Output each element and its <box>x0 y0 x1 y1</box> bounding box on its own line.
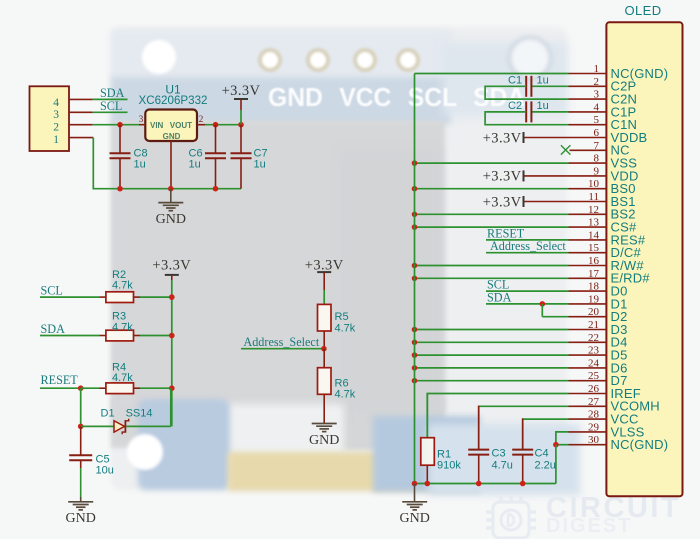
svg-text:4: 4 <box>594 101 600 113</box>
junction R1 bottom <box>425 481 431 487</box>
svg-text:910k: 910k <box>437 459 461 471</box>
svg-text:1u: 1u <box>254 159 266 171</box>
svg-text:+3.3V: +3.3V <box>483 130 522 146</box>
junction R4 / +3.3V <box>169 385 175 391</box>
svg-text:4.7u: 4.7u <box>492 459 513 471</box>
pin 29 VLSS <box>556 421 645 444</box>
svg-text:12: 12 <box>588 204 599 216</box>
svg-text:21: 21 <box>588 319 599 331</box>
wire RESET branch down <box>80 388 82 426</box>
svg-text:Address_Select: Address_Select <box>243 335 319 349</box>
svg-text:SDA: SDA <box>487 290 512 304</box>
wire pin2 to VIN <box>93 124 139 126</box>
pin 24 D6 <box>412 357 628 375</box>
wire +3.3V rail down <box>171 297 173 426</box>
power +3.3V (U1 out) <box>222 83 261 125</box>
junction C4 bottom <box>520 481 526 487</box>
junction C6 bottom <box>213 186 219 192</box>
svg-text:14: 14 <box>588 229 600 241</box>
junction C7 top <box>238 122 244 128</box>
label Address_Select <box>241 335 324 349</box>
svg-text:Address_Select: Address_Select <box>490 239 566 253</box>
capacitor C3 <box>468 406 513 484</box>
svg-text:28: 28 <box>588 409 600 421</box>
power +3.3V (R5) <box>305 257 344 304</box>
svg-text:OLED: OLED <box>624 3 661 18</box>
svg-text:VIN: VIN <box>150 121 164 130</box>
resistor R5 <box>318 304 356 348</box>
svg-text:+3.3V: +3.3V <box>152 257 191 273</box>
regulator U1 XC6206P332 <box>139 83 208 189</box>
svg-text:8: 8 <box>594 153 600 165</box>
svg-text:7: 7 <box>594 140 600 152</box>
svg-text:24: 24 <box>588 357 600 369</box>
wire pin1 to ground rail <box>93 138 241 189</box>
svg-text:30: 30 <box>588 434 600 446</box>
svg-text:GND: GND <box>156 212 186 227</box>
svg-text:4: 4 <box>53 97 59 109</box>
svg-text:GND: GND <box>66 511 96 526</box>
wire RESET to R4 <box>81 387 100 389</box>
svg-text:C1: C1 <box>508 75 522 87</box>
label SCL (pull-up) <box>40 284 100 298</box>
svg-text:+3.3V: +3.3V <box>222 83 261 99</box>
svg-text:SDA: SDA <box>100 86 125 100</box>
svg-text:2: 2 <box>594 76 600 88</box>
pin 3 stub <box>69 111 93 113</box>
ground GND (R6) <box>309 424 339 448</box>
svg-text:13: 13 <box>588 217 600 229</box>
svg-text:GND: GND <box>309 433 339 448</box>
svg-text:17: 17 <box>588 268 600 280</box>
svg-text:NC(GND): NC(GND) <box>611 437 669 452</box>
capacitor C6 <box>189 125 227 189</box>
svg-text:4.7k: 4.7k <box>112 321 133 333</box>
diode D1 SS14 <box>81 388 171 434</box>
resistor R2 <box>100 269 172 303</box>
pin 20 D2 <box>542 304 627 324</box>
pin 9 VDD <box>483 165 639 184</box>
svg-text:27: 27 <box>588 396 600 408</box>
pin 15 D/C# <box>486 239 641 260</box>
svg-text:+3.3V: +3.3V <box>305 257 344 273</box>
resistor R3 <box>100 311 172 341</box>
junction C8 bottom <box>117 186 123 192</box>
svg-text:3: 3 <box>53 109 59 121</box>
connector J1 <box>30 86 70 151</box>
svg-text:22: 22 <box>588 332 599 344</box>
label SDA (pull-up) <box>40 322 100 336</box>
svg-text:SCL: SCL <box>41 284 63 298</box>
capacitor C2 <box>485 100 568 125</box>
svg-text:4.7k: 4.7k <box>335 388 356 400</box>
junction RESET branch <box>78 385 84 391</box>
svg-text:1: 1 <box>594 63 600 75</box>
pin 23 D5 <box>412 345 628 363</box>
svg-text:29: 29 <box>588 421 600 433</box>
pin 30 NC(GND) <box>553 434 668 483</box>
svg-text:4.7k: 4.7k <box>112 280 133 292</box>
pin 7 NC <box>561 140 630 158</box>
svg-text:1u: 1u <box>537 100 549 112</box>
wire VOUT to +3.3V <box>205 124 241 126</box>
pin 28 VCC <box>523 409 639 450</box>
label SDA <box>93 86 128 100</box>
svg-text:18: 18 <box>588 281 600 293</box>
capacitor C4 <box>512 418 556 483</box>
svg-text:C4: C4 <box>535 448 549 460</box>
svg-text:R5: R5 <box>335 311 349 323</box>
pin 5 C1N <box>569 114 638 132</box>
pin 17 E/RD# <box>412 268 651 286</box>
label SCL <box>93 99 128 113</box>
svg-text:4.7k: 4.7k <box>335 323 356 335</box>
svg-text:4.7k: 4.7k <box>112 372 133 384</box>
resistor R6 <box>318 349 356 424</box>
capacitor C5 <box>69 426 114 501</box>
svg-text:5: 5 <box>594 114 600 126</box>
svg-text:23: 23 <box>588 345 600 357</box>
wire bottom ground rail <box>415 483 556 485</box>
svg-text:3: 3 <box>139 114 144 124</box>
wire ground bus <box>414 74 416 484</box>
connector OLED <box>606 3 682 496</box>
svg-text:20: 20 <box>588 306 600 318</box>
svg-text:+3.3V: +3.3V <box>483 169 522 185</box>
svg-text:SS14: SS14 <box>126 407 153 419</box>
junction C6 top <box>213 122 219 128</box>
svg-text:1u: 1u <box>134 159 146 171</box>
capacitor C8 <box>110 125 148 189</box>
resistor R1 <box>421 394 462 484</box>
svg-text:10: 10 <box>588 178 600 190</box>
junction rail left <box>412 481 418 487</box>
junction C3 bottom <box>476 481 482 487</box>
pin 13 CS# <box>412 217 637 235</box>
pin 1 stub <box>69 137 93 139</box>
power +3.3V (pull-ups) <box>152 257 191 297</box>
pin 26 IREF <box>427 383 641 438</box>
svg-text:C2: C2 <box>508 100 522 112</box>
svg-text:C3: C3 <box>492 448 506 460</box>
pin 14 RES# <box>486 226 646 247</box>
svg-text:25: 25 <box>588 370 600 382</box>
svg-text:1u: 1u <box>189 159 201 171</box>
junction Address_Select <box>321 346 327 352</box>
pin 12 BS2 <box>412 204 636 222</box>
svg-text:D1: D1 <box>101 407 115 419</box>
svg-text:3: 3 <box>594 89 600 101</box>
label RESET <box>40 373 81 388</box>
svg-text:15: 15 <box>588 242 600 254</box>
pin 19 D1 <box>486 290 628 311</box>
svg-text:RESET: RESET <box>41 373 79 387</box>
pin 4 stub <box>69 98 93 100</box>
pin 10 BS0 <box>412 178 636 196</box>
svg-text:6: 6 <box>594 127 600 139</box>
pin 4 C1P <box>569 101 637 119</box>
capacitor C1 <box>485 75 568 100</box>
svg-text:10u: 10u <box>96 465 114 477</box>
pin 18 D0 <box>486 278 628 299</box>
pin 11 BS1 <box>483 191 636 210</box>
junction R3 / +3.3V <box>169 333 175 339</box>
pin 6 VDDB <box>483 127 648 146</box>
pin 16 R/W# <box>412 255 645 273</box>
svg-text:SCL: SCL <box>100 99 122 113</box>
junction VIN node <box>117 122 123 128</box>
svg-text:16: 16 <box>588 255 600 267</box>
svg-text:2.2u: 2.2u <box>535 459 556 471</box>
svg-text:GND: GND <box>400 511 430 526</box>
svg-text:2: 2 <box>53 122 59 134</box>
junction R2 / +3.3V <box>169 294 175 300</box>
svg-text:XC6206P332: XC6206P332 <box>139 94 208 107</box>
junction U1 GND <box>168 186 174 192</box>
ground GND (C5) <box>66 502 96 526</box>
capacitor C7 <box>231 125 268 189</box>
svg-text:+3.3V: +3.3V <box>483 194 522 210</box>
ground GND (OLED) <box>400 484 430 527</box>
pin 27 VCOMH <box>479 396 660 450</box>
svg-text:19: 19 <box>588 293 600 305</box>
pin 21 D3 <box>412 319 628 337</box>
ground GND (U1) <box>156 189 186 227</box>
pin 2 stub <box>69 124 93 126</box>
svg-text:VOUT: VOUT <box>170 121 192 130</box>
pin 3 C2N <box>569 89 638 107</box>
pin 1 NC(GND) <box>415 63 669 81</box>
svg-text:11: 11 <box>588 191 599 203</box>
svg-text:SDA: SDA <box>41 322 66 336</box>
junction D1 anode / C5 <box>78 424 84 430</box>
svg-text:GND: GND <box>163 132 181 141</box>
pin 25 D7 <box>412 370 628 388</box>
resistor R4 <box>100 361 172 393</box>
pin 22 D4 <box>412 332 628 350</box>
pin 8 VSS <box>412 153 638 171</box>
svg-text:1u: 1u <box>537 75 549 87</box>
svg-text:1: 1 <box>53 134 59 146</box>
svg-text:26: 26 <box>588 383 600 395</box>
svg-text:9: 9 <box>594 165 600 177</box>
pin 2 C2P <box>569 76 637 94</box>
svg-text:2: 2 <box>199 114 204 124</box>
